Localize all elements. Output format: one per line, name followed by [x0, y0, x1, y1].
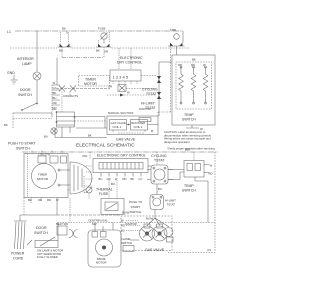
timer assembly box	[24, 154, 68, 198]
wire TB1 to right dashed	[141, 75, 156, 77]
svg-text:POWER: POWER	[11, 252, 25, 256]
wire edc to cycling	[148, 165, 151, 167]
wire door sw drop to block	[51, 113, 53, 117]
wire to cycling contact	[126, 88, 156, 90]
svg-text:CORD: CORD	[13, 257, 24, 261]
wire left drop dashed	[12, 113, 14, 129]
wire heater exit	[186, 125, 199, 128]
svg-text:BK: BK	[4, 123, 8, 127]
contact box left	[118, 85, 126, 92]
svg-text:SWITCH: SWITCH	[16, 147, 30, 151]
electronic dry control U2 box	[93, 159, 148, 173]
svg-text:MOTOR: MOTOR	[96, 261, 106, 265]
svg-text:FULLY CLOSED: FULLY CLOSED	[37, 255, 58, 259]
edc inner terminal strip	[99, 163, 143, 170]
svg-text:BU: BU	[53, 96, 57, 100]
motor top squares	[92, 232, 98, 238]
svg-text:BU: BU	[111, 182, 115, 186]
drive motor M1 box	[88, 230, 121, 267]
svg-text:HI-LIMIT: HI-LIMIT	[141, 102, 155, 106]
svg-text:TIMER: TIMER	[38, 173, 48, 177]
svg-text:FUSE: FUSE	[99, 192, 109, 196]
heater element R1	[179, 67, 184, 103]
motor switch symbol	[69, 230, 78, 238]
wire door bus solid	[13, 112, 52, 114]
wire temp switch down	[195, 177, 208, 223]
svg-text:ELECTRONIC: ELECTRONIC	[120, 56, 143, 60]
svg-text:OR: OR	[53, 101, 57, 105]
svg-text:BELT SW: BELT SW	[56, 222, 68, 226]
wire block to valve y115	[75, 117, 108, 129]
svg-text:BU/W: BU/W	[146, 217, 154, 221]
svg-text:CYCLING: CYCLING	[142, 88, 158, 92]
timer motor circle (schematic)	[32, 164, 57, 189]
svg-text:GAS VALVE: GAS VALVE	[145, 248, 165, 252]
svg-text:RD: RD	[123, 177, 127, 181]
wire contacts drop	[62, 92, 70, 113]
svg-text:GY: GY	[53, 86, 57, 90]
power cord pointer	[27, 240, 32, 245]
svg-text:RD: RD	[178, 63, 182, 67]
timer box top ticks	[32, 151, 62, 154]
svg-text:GND: GND	[7, 71, 15, 75]
solenoid coil C small	[164, 228, 173, 237]
cycling tstat contact (wiring)	[157, 76, 161, 83]
door switch S1 blade	[22, 103, 37, 110]
svg-text:4.5: 4.5	[207, 248, 211, 252]
svg-text:RD: RD	[191, 63, 195, 67]
svg-text:4TH: 4TH	[82, 154, 87, 158]
wire bus drops to TB1	[119, 48, 131, 70]
thermal fuse TF2	[174, 34, 180, 40]
wire timer to fuse	[68, 189, 70, 191]
svg-text:W: W	[203, 63, 206, 67]
svg-text:SWITCH: SWITCH	[34, 231, 48, 235]
svg-text:ELECTRONIC DRY CONTROL: ELECTRONIC DRY CONTROL	[97, 154, 146, 158]
timer cam D	[70, 162, 92, 194]
svg-text:OR: OR	[104, 50, 108, 54]
timer contact row bus	[56, 88, 110, 90]
svg-text:SWITCH: SWITCH	[18, 93, 32, 97]
aux lamp symbol	[51, 128, 57, 134]
ground symbol	[11, 75, 18, 84]
timer cam ticks	[84, 166, 93, 186]
wire hi-limit feed	[107, 94, 156, 96]
wire coils junctions	[127, 124, 159, 126]
hi-limit tstat (schematic)	[150, 195, 164, 210]
gas valve (wiring) outer box	[107, 116, 158, 135]
svg-text:CYCLING: CYCLING	[151, 154, 167, 158]
svg-text:BLK: BLK	[185, 148, 190, 152]
svg-text:1TM 2TM: 1TM 2TM	[38, 153, 51, 157]
lamp DL1	[33, 72, 41, 80]
svg-text:BK: BK	[53, 91, 57, 95]
svg-text:START: START	[131, 205, 141, 209]
door switch (schematic)	[35, 241, 58, 248]
connector CON2 mid pair	[98, 44, 110, 48]
thermal fuse TF1	[101, 33, 107, 39]
svg-text:BU: BU	[99, 177, 103, 181]
svg-text:RD: RD	[121, 224, 125, 228]
svg-text:OR: OR	[38, 198, 42, 202]
svg-text:ELECTRICAL SCHEMATIC: ELECTRICAL SCHEMATIC	[76, 143, 135, 149]
wire timer drop to bus	[69, 198, 71, 223]
wire L1 dash-dot top	[15, 30, 183, 32]
right dashed border	[214, 152, 216, 253]
ignitor sub-box	[139, 118, 151, 122]
svg-text:SWITCH: SWITCH	[130, 210, 142, 214]
svg-text:GY: GY	[139, 177, 143, 181]
solenoid coil A	[140, 226, 155, 241]
svg-text:BU: BU	[158, 187, 162, 191]
svg-text:BK: BK	[192, 58, 196, 62]
push to start box (schematic)	[101, 199, 124, 215]
svg-text:TSTAT: TSTAT	[167, 202, 176, 206]
wire right top to temp	[193, 152, 195, 161]
wire fuse to heater box	[176, 46, 178, 55]
svg-text:OR: OR	[107, 177, 111, 181]
heater element R3	[203, 67, 208, 103]
svg-text:W: W	[210, 164, 213, 168]
wire tick BK	[66, 31, 68, 34]
svg-text:PUSH TO START: PUSH TO START	[8, 142, 36, 146]
svg-text:SWITCH: SWITCH	[121, 241, 132, 245]
temp switch side ticks	[204, 165, 209, 173]
svg-text:BU: BU	[28, 198, 32, 202]
push-to-start wiring block	[57, 112, 75, 127]
svg-text:CONTACTS: CONTACTS	[63, 94, 78, 98]
wire hi-limit down	[154, 210, 156, 219]
svg-text:TSTAT: TSTAT	[146, 92, 157, 96]
svg-text:LAMP: LAMP	[22, 62, 32, 66]
svg-text:W: W	[115, 177, 118, 181]
gas valve (schematic) box	[121, 216, 172, 251]
svg-text:RD: RD	[47, 198, 51, 202]
svg-text:SWITCH: SWITCH	[182, 118, 196, 122]
wire column vertical	[51, 85, 53, 113]
svg-text:DRY CONTROL: DRY CONTROL	[117, 61, 142, 65]
svg-text:IGNITOR: IGNITOR	[139, 107, 151, 111]
svg-text:INTERIOR: INTERIOR	[17, 57, 34, 61]
svg-text:RD: RD	[53, 106, 57, 110]
svg-text:PUSH TO: PUSH TO	[129, 200, 143, 204]
connector CON3 right pair	[170, 43, 183, 47]
edc left dashed lead	[89, 152, 91, 159]
svg-text:W: W	[127, 91, 130, 95]
timer sub box C	[61, 156, 67, 163]
svg-text:DOOR: DOOR	[36, 226, 47, 230]
svg-text:DOOR: DOOR	[20, 88, 31, 92]
wire block drops	[62, 127, 70, 138]
wire dashed bus y48	[10, 47, 57, 49]
timer contact A	[59, 86, 65, 92]
drive motor rotor	[96, 239, 113, 256]
temp switch box (schematic)	[184, 161, 204, 178]
svg-text:L1: L1	[7, 30, 11, 34]
timer sub box A	[38, 156, 46, 163]
timer cam hatches	[74, 165, 82, 192]
bottom dashed border	[168, 252, 215, 254]
svg-text:1 2 3 4 5: 1 2 3 4 5	[113, 75, 129, 80]
edc bottom pins	[101, 173, 141, 177]
svg-text:*Verify proper operation after: *Verify proper operation after servicing…	[167, 147, 216, 151]
svg-text:BU: BU	[59, 49, 63, 53]
svg-text:dangerous operation.: dangerous operation.	[164, 140, 191, 144]
wire bus to power cord	[20, 214, 57, 216]
svg-text:TEMP: TEMP	[184, 113, 194, 117]
valve feed diagonals	[147, 218, 169, 227]
wire drops to CON2	[99, 32, 110, 43]
wire cycling down to hi-limit	[156, 184, 158, 195]
svg-text:FUSE: FUSE	[98, 27, 106, 31]
wire bottom bus to valve	[55, 137, 107, 139]
svg-text:OR: OR	[108, 85, 112, 89]
heater box outer	[172, 55, 215, 125]
wire cross-link y57	[62, 47, 104, 58]
valve right rects	[167, 237, 174, 242]
belt switch box	[57, 226, 67, 235]
wire door bus dashed	[13, 118, 52, 120]
svg-text:THERMAL: THERMAL	[96, 188, 113, 192]
svg-text:GAS VALVE: GAS VALVE	[116, 138, 136, 142]
motor terminals	[95, 223, 113, 232]
heater element R2	[191, 67, 196, 103]
wire timer left drop	[23, 198, 25, 216]
svg-text:SW: SW	[92, 222, 97, 226]
cycling tstat body	[151, 165, 168, 184]
wire lamp to door switch	[36, 80, 38, 103]
svg-text:BU/W: BU/W	[122, 211, 130, 215]
wire L1 corner drop	[182, 31, 184, 43]
flame switch FS1 box	[123, 246, 134, 252]
gas valve coil 2	[131, 120, 148, 131]
timer motor label (wiring)	[79, 76, 110, 87]
dashed mid bus	[57, 222, 215, 224]
wire label ticks column	[52, 85, 60, 110]
gas valve coil 1	[110, 120, 127, 131]
wire fuse down	[88, 193, 90, 199]
svg-text:BK: BK	[96, 49, 100, 53]
wire cycling to temp	[168, 170, 184, 180]
connector CON1 left pair	[60, 44, 70, 48]
terminal strip TB1	[110, 70, 141, 81]
separator dash-dot	[22, 151, 218, 153]
svg-text:RD: RD	[209, 172, 213, 176]
wire block to valve y120	[75, 120, 108, 122]
svg-text:W: W	[53, 81, 56, 85]
wire edc to fuse drop	[84, 176, 86, 193]
svg-text:W: W	[56, 198, 59, 202]
svg-text:BK: BK	[62, 27, 66, 31]
svg-text:TEMP: TEMP	[184, 184, 194, 188]
coil base line	[130, 239, 139, 241]
svg-text:TMR: TMR	[170, 28, 176, 32]
svg-text:BK: BK	[131, 177, 135, 181]
solenoid coil B	[152, 226, 167, 241]
svg-text:SWITCH: SWITCH	[182, 189, 196, 193]
svg-text:MANUAL SHUTOFF: MANUAL SHUTOFF	[108, 111, 134, 115]
svg-text:W: W	[121, 219, 124, 223]
wire lamp drop	[36, 31, 38, 72]
svg-text:MOTOR: MOTOR	[84, 82, 97, 86]
power cord PC1	[15, 222, 26, 249]
svg-text:COIL 2: COIL 2	[134, 125, 143, 129]
svg-text:BU: BU	[44, 135, 48, 139]
timer sub box B	[50, 156, 58, 163]
hi-limit contact (wiring)	[157, 92, 161, 99]
wire bus to gas valve	[57, 214, 121, 216]
svg-text:COIL 1: COIL 1	[113, 125, 122, 129]
heater box inner dashed	[176, 62, 212, 109]
temp switch element 2	[195, 164, 201, 171]
svg-text:TIMER: TIMER	[85, 78, 96, 82]
svg-text:BU: BU	[121, 229, 125, 233]
heater feed vertical	[158, 62, 160, 116]
wire cycling top drop	[156, 152, 158, 165]
svg-text:TSTAT: TSTAT	[154, 159, 165, 163]
thermal fuse TF3	[86, 187, 92, 193]
wire CON3 to gas valve drop	[158, 46, 171, 116]
svg-text:BK: BK	[88, 134, 92, 138]
wire pts to valve	[116, 215, 118, 217]
wire TB1 drops	[113, 81, 137, 85]
temp switch element 1	[187, 164, 193, 171]
timer box inner dashed edge	[27, 154, 29, 198]
timer contact B	[70, 86, 76, 92]
svg-text:MOTOR: MOTOR	[37, 177, 49, 181]
wire timer to cord bus	[56, 198, 58, 216]
